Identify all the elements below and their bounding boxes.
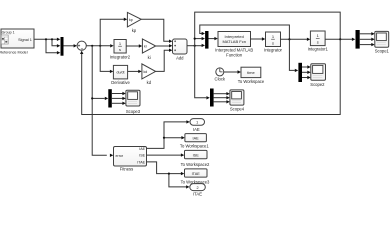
arrowhead into Add3 — [169, 49, 172, 52]
svg-text:Derivative: Derivative — [111, 80, 130, 85]
wire: Derivative to kd — [128, 70, 139, 72]
block Scope2 — [310, 64, 325, 87]
junction dot — [51, 38, 53, 40]
svg-text:ki: ki — [148, 55, 151, 60]
arrowhead into Scope1 mux — [352, 38, 355, 41]
svg-text:IAE: IAE — [193, 136, 200, 140]
svg-text:Scope4: Scope4 — [230, 107, 245, 112]
wire: Fitness ISE out — [147, 154, 182, 156]
arrowhead into fcn — [214, 37, 217, 40]
wires: demux D3 to Scope3 — [112, 94, 123, 104]
junction dot u branch — [194, 45, 196, 47]
wire: mux M2 to Interpreted MATLAB Function — [209, 38, 215, 40]
block Clock — [215, 68, 226, 82]
junction dot at mux in2 branch — [194, 38, 196, 40]
svg-text:Add: Add — [176, 56, 184, 61]
svg-text:To Workspace1: To Workspace1 — [180, 144, 209, 149]
arrowhead into Out2 oval — [186, 185, 189, 188]
wire: x2 down to Scope2 mux — [289, 39, 295, 70]
svg-text:kp: kp — [132, 28, 137, 33]
wire: Clock to To Workspace — [224, 71, 238, 73]
junction dot y1 — [339, 38, 341, 40]
svg-text:ki: ki — [144, 44, 147, 48]
demux D2 bar (Scope2) — [298, 63, 302, 82]
block To Workspace3 (ITAE) — [181, 169, 210, 184]
svg-text:error: error — [116, 154, 124, 158]
arrowhead feedback into sum bottom — [80, 51, 83, 54]
demux D4 bar (Scope4) — [210, 89, 214, 107]
svg-text:Function: Function — [226, 52, 243, 57]
mux M1 (3-in bar) — [61, 37, 64, 56]
svg-text:ITAE: ITAE — [192, 172, 201, 176]
wire: fcn to Integrator — [251, 38, 263, 40]
block Fitness subsystem — [114, 147, 147, 172]
wire: Signal1 output to mux M1 with branches — [34, 39, 59, 52]
wires: demux D2 to Scope2 — [302, 67, 307, 78]
junction dot kp/deriv branch — [99, 45, 101, 47]
arrowheads into Scope2 — [307, 65, 310, 79]
wire: kp leg up — [100, 19, 124, 46]
block Integrator2 — [110, 40, 131, 60]
block To Workspace (time) — [238, 67, 265, 84]
junction dot error branch — [91, 45, 93, 47]
arrowhead into plant mux in3 — [202, 44, 205, 47]
svg-text:Scope2: Scope2 — [310, 82, 325, 87]
block Scope1 — [375, 31, 390, 53]
junction dot IAE — [163, 137, 165, 139]
wire: Add output to plant mux — [187, 45, 202, 47]
wire: Fitness ITAE out to ITAE block and Out2 oval — [147, 162, 187, 187]
arrowhead into Out1 oval — [186, 120, 189, 123]
arrowhead into kp — [124, 18, 127, 21]
wire: Integrator2 to ki — [126, 45, 139, 47]
svg-text:ISE: ISE — [139, 154, 145, 158]
svg-text:To Workspace2: To Workspace2 — [181, 162, 210, 167]
svg-text:Integrator1: Integrator1 — [308, 46, 329, 51]
svg-text:kd: kd — [147, 80, 152, 85]
wire: Integrator to Integrator1 — [281, 38, 308, 40]
gain kd triangle — [142, 64, 156, 85]
wire: mux M1 to sum — [64, 45, 75, 47]
svg-text:To Workspace: To Workspace — [238, 79, 265, 84]
arrowhead into Scope4 mux — [206, 96, 209, 99]
arrowhead into kd — [138, 70, 141, 73]
arrowheads into Scope4 — [226, 92, 229, 104]
svg-text:Integrator: Integrator — [264, 47, 283, 52]
block Signal Builder "Reference Model" — [0, 29, 34, 54]
block Integrator — [264, 32, 283, 52]
arrowhead into Integrator — [262, 37, 265, 40]
svg-text:time: time — [247, 70, 255, 75]
arrowhead into plant mux in1 — [202, 32, 205, 35]
svg-text:Fitness: Fitness — [120, 167, 134, 172]
svg-text:Signal 1: Signal 1 — [18, 38, 32, 42]
svg-text:ISE: ISE — [193, 153, 200, 157]
wire: y1 feedback loop top into mux in2 and down to Scope4 — [195, 12, 341, 98]
svg-text:Scope1: Scope1 — [375, 49, 390, 54]
svg-text:Group 1: Group 1 — [2, 30, 15, 34]
demux D1 bar (Scope1) — [356, 30, 360, 49]
svg-text:IAE: IAE — [139, 147, 145, 151]
arrowhead into Fitness — [110, 154, 113, 157]
arrowhead into Add2 — [169, 44, 172, 47]
wires: demux D1 to Scope1 — [360, 34, 372, 45]
block Add — [173, 39, 188, 61]
junction dot x2 — [288, 38, 290, 40]
svg-text:ITAE: ITAE — [193, 191, 202, 196]
wire: x2 loop into mux in1 — [200, 25, 290, 39]
wire: derivative leg down — [100, 46, 110, 72]
wire: kd to Add input3 — [156, 50, 170, 71]
junction dot ITAE — [168, 173, 170, 175]
mux M2 (plant inputs bar) — [205, 31, 208, 49]
arrowhead into Add1 — [169, 40, 172, 43]
svg-text:Integrator2: Integrator2 — [110, 54, 131, 59]
wires: demux D4 to Scope4 — [214, 94, 227, 102]
block Integrator1 — [308, 31, 329, 51]
svg-text:1: 1 — [196, 121, 198, 125]
svg-text:du/dt: du/dt — [117, 71, 125, 75]
wire: outer feedback y1 down and back to sum — [82, 39, 341, 114]
arrowhead into Scope2 mux — [295, 69, 298, 72]
arrowhead into ITAE block — [181, 172, 184, 175]
svg-text:ITAE: ITAE — [137, 160, 145, 164]
arrowheads into mux M1 — [57, 38, 60, 55]
block Scope4 — [230, 90, 245, 112]
gain kp triangle — [127, 12, 141, 32]
svg-text:kp: kp — [129, 18, 133, 22]
gain ki triangle — [142, 39, 155, 60]
wire: sum output (error) to Integrator2 — [86, 45, 110, 47]
block Derivative du/dt — [111, 65, 130, 85]
arrowhead into Integrator1 — [307, 38, 310, 41]
arrowhead into plant mux in2 — [202, 37, 205, 40]
svg-text:kd: kd — [144, 70, 148, 74]
wire: Fitness IAE out to Out1 oval and IAE To Workspace1 — [147, 122, 187, 148]
arrowheads into Scope1 — [371, 32, 374, 46]
arrowhead into Scope3 mux — [105, 97, 108, 100]
arrowhead into Derivative — [110, 70, 113, 73]
arrowhead into IAE block — [181, 136, 184, 139]
wire: ki to Add input2 — [156, 45, 170, 47]
demux D3 bar (Scope3) — [108, 89, 112, 107]
wire: Integrator1 to Scope1 mux — [325, 38, 352, 40]
arrowhead into ki — [139, 44, 142, 47]
svg-text:Reference Model: Reference Model — [0, 50, 28, 54]
svg-text:MATLAB Fcn: MATLAB Fcn — [222, 39, 246, 44]
arrowhead into ISE block — [181, 153, 184, 156]
svg-text:2: 2 — [196, 186, 198, 190]
wire: error down to Scope3 mux and Fitness — [92, 46, 107, 156]
outport oval 2 (ITAE) — [190, 184, 206, 197]
block Interpreted MATLAB Function — [215, 32, 253, 58]
svg-text:s: s — [272, 40, 274, 45]
block Scope3 — [126, 90, 141, 114]
svg-text:IAE: IAE — [193, 127, 200, 132]
arrowhead into time block — [238, 70, 241, 73]
arrowhead into sum — [74, 44, 77, 47]
junction dot at scope3 branch — [91, 97, 93, 99]
junction dot — [45, 38, 47, 40]
wire: kp to Add input1 — [141, 19, 169, 41]
arrowhead into Integrator2 — [110, 44, 113, 47]
sum block (+/-) — [77, 41, 86, 50]
svg-text:Scope3: Scope3 — [126, 109, 141, 114]
arrowheads into Scope3 — [122, 92, 125, 105]
svg-text:s: s — [317, 40, 319, 45]
svg-text:s: s — [119, 47, 121, 52]
outport oval 1 (IAE) — [190, 119, 205, 132]
block To Workspace1 (IAE) — [180, 134, 209, 149]
block To Workspace2 (ISE) — [181, 150, 210, 167]
svg-text:Clock: Clock — [215, 76, 226, 81]
